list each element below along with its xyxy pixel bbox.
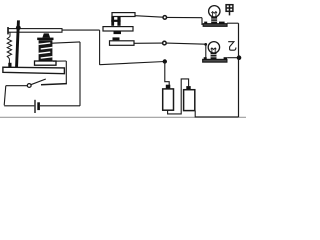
- contact block on bottom bar: [113, 37, 120, 40]
- pivot dot: [16, 25, 21, 30]
- lamp A base plate: [203, 24, 227, 27]
- lamp B left terminal nub: [204, 57, 207, 59]
- lamp A filament: [211, 12, 217, 17]
- wire armature to stack node: [62, 29, 100, 31]
- wire battery to x80: [40, 105, 80, 107]
- battery long plate: [34, 100, 36, 113]
- wire1 down to lamp A base: [201, 18, 203, 25]
- wire junction dot down to cell 1: [165, 62, 169, 86]
- terminal circle 2: [163, 41, 167, 45]
- lamp A left terminal nub: [204, 22, 207, 24]
- coil bottom flange: [35, 61, 57, 65]
- spring anchor nub: [8, 63, 11, 67]
- contact H connector upper: [111, 17, 120, 26]
- wire down x80: [79, 42, 81, 106]
- wire lamp B to right rail: [227, 57, 239, 59]
- switch lever: [31, 79, 46, 85]
- terminal circle 1: [163, 16, 167, 20]
- cell 2 cap: [186, 86, 190, 90]
- label yi (乙): [228, 42, 236, 51]
- spring lower wire: [8, 59, 10, 64]
- cell 2 body: [184, 90, 195, 111]
- contact stack bottom bar: [110, 41, 135, 46]
- lamp B right terminal nub: [224, 57, 227, 59]
- coil top terminal wire: [52, 42, 80, 43]
- spring (zigzag): [7, 37, 11, 59]
- spring hanger wire: [9, 33, 11, 37]
- wire2 down to lamp B base: [205, 44, 207, 57]
- contact stack top bar: [112, 13, 135, 17]
- armature left end cap: [7, 27, 9, 34]
- relay base platform: [3, 67, 65, 74]
- right rail junction dot: [237, 55, 242, 60]
- lamp B bulb globe: [208, 42, 219, 53]
- electromagnet pole cap: [42, 33, 50, 37]
- wire cell1 bottom U to cell2 top: [168, 79, 189, 114]
- lamp A screw base: [211, 17, 217, 24]
- switch pivot circle: [27, 84, 31, 88]
- coil bottom terminal wire: [53, 60, 66, 62]
- wire switch to left corner: [6, 85, 27, 87]
- wire2 corner dot: [204, 43, 207, 46]
- lamp B filament: [211, 48, 217, 53]
- left vertical wire: [4, 86, 6, 106]
- bottom wire to battery: [4, 105, 34, 107]
- wire2 stack to terminal circle: [134, 42, 162, 44]
- wire lamp A to right rail: [227, 22, 238, 24]
- coil body winding: [39, 40, 53, 61]
- label jia (甲): [226, 5, 233, 16]
- relay armature bar: [8, 29, 62, 33]
- right rail vertical: [238, 23, 240, 117]
- switch fixed contact line: [41, 84, 67, 85]
- wire2 to lamp B: [166, 43, 205, 44]
- cell 1 body: [163, 89, 174, 110]
- lamp A right terminal nub: [219, 22, 225, 24]
- wire cell2 bottom to right rail: [195, 111, 238, 117]
- lamp B screw base: [211, 53, 217, 60]
- wire down x66.3: [65, 61, 67, 84]
- faint scan line across bottom: [0, 116, 246, 118]
- sloped wire to battery junction: [100, 62, 165, 65]
- wire1 to lamp A: [167, 16, 202, 18]
- lamp B base plate: [203, 59, 227, 62]
- wire vertical x99.6: [99, 30, 101, 65]
- contact block below middle bar: [114, 31, 122, 34]
- cell 1 cap: [166, 85, 171, 89]
- contact stack middle bar: [103, 27, 133, 31]
- battery short plate: [37, 102, 40, 110]
- coil top flange: [37, 38, 53, 41]
- wire1 stack to terminal circle: [135, 16, 163, 18]
- relay pivot post: [15, 20, 20, 67]
- node junction dot: [163, 59, 167, 63]
- lamp A bulb globe: [209, 6, 220, 17]
